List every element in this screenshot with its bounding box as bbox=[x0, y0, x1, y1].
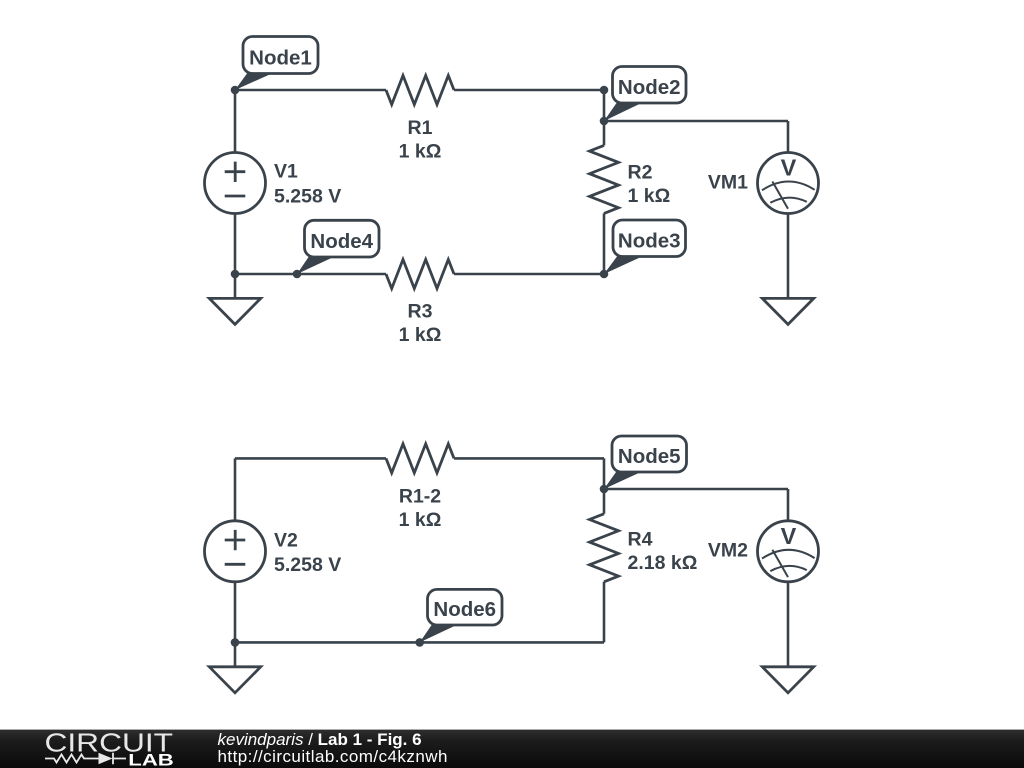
svg-text:2.18 kΩ: 2.18 kΩ bbox=[628, 552, 698, 574]
svg-text:R1-2: R1-2 bbox=[399, 485, 441, 507]
svg-text:V2: V2 bbox=[274, 530, 298, 552]
svg-text:1 kΩ: 1 kΩ bbox=[399, 509, 442, 531]
svg-text:LAB: LAB bbox=[128, 751, 174, 768]
svg-text:1 kΩ: 1 kΩ bbox=[399, 324, 442, 346]
svg-text:http://circuitlab.com/c4kznwh: http://circuitlab.com/c4kznwh bbox=[218, 747, 448, 766]
svg-text:Node4: Node4 bbox=[310, 230, 373, 253]
svg-text:V: V bbox=[781, 523, 797, 549]
svg-text:Node2: Node2 bbox=[618, 76, 681, 99]
svg-text:R2: R2 bbox=[628, 162, 653, 184]
svg-text:R1: R1 bbox=[408, 117, 433, 139]
svg-text:1 kΩ: 1 kΩ bbox=[628, 185, 671, 207]
svg-text:R3: R3 bbox=[408, 301, 433, 323]
svg-text:5.258 V: 5.258 V bbox=[274, 185, 341, 207]
svg-text:VM2: VM2 bbox=[708, 540, 748, 562]
svg-text:Node3: Node3 bbox=[618, 230, 681, 253]
svg-text:Node5: Node5 bbox=[618, 445, 681, 468]
svg-text:Node6: Node6 bbox=[433, 598, 496, 621]
svg-text:5.258 V: 5.258 V bbox=[274, 554, 341, 576]
svg-text:1 kΩ: 1 kΩ bbox=[399, 141, 442, 163]
svg-text:V1: V1 bbox=[274, 161, 298, 183]
svg-text:Node1: Node1 bbox=[249, 47, 312, 70]
svg-text:VM1: VM1 bbox=[708, 171, 748, 193]
svg-text:V: V bbox=[781, 155, 797, 181]
svg-text:R4: R4 bbox=[628, 528, 653, 550]
